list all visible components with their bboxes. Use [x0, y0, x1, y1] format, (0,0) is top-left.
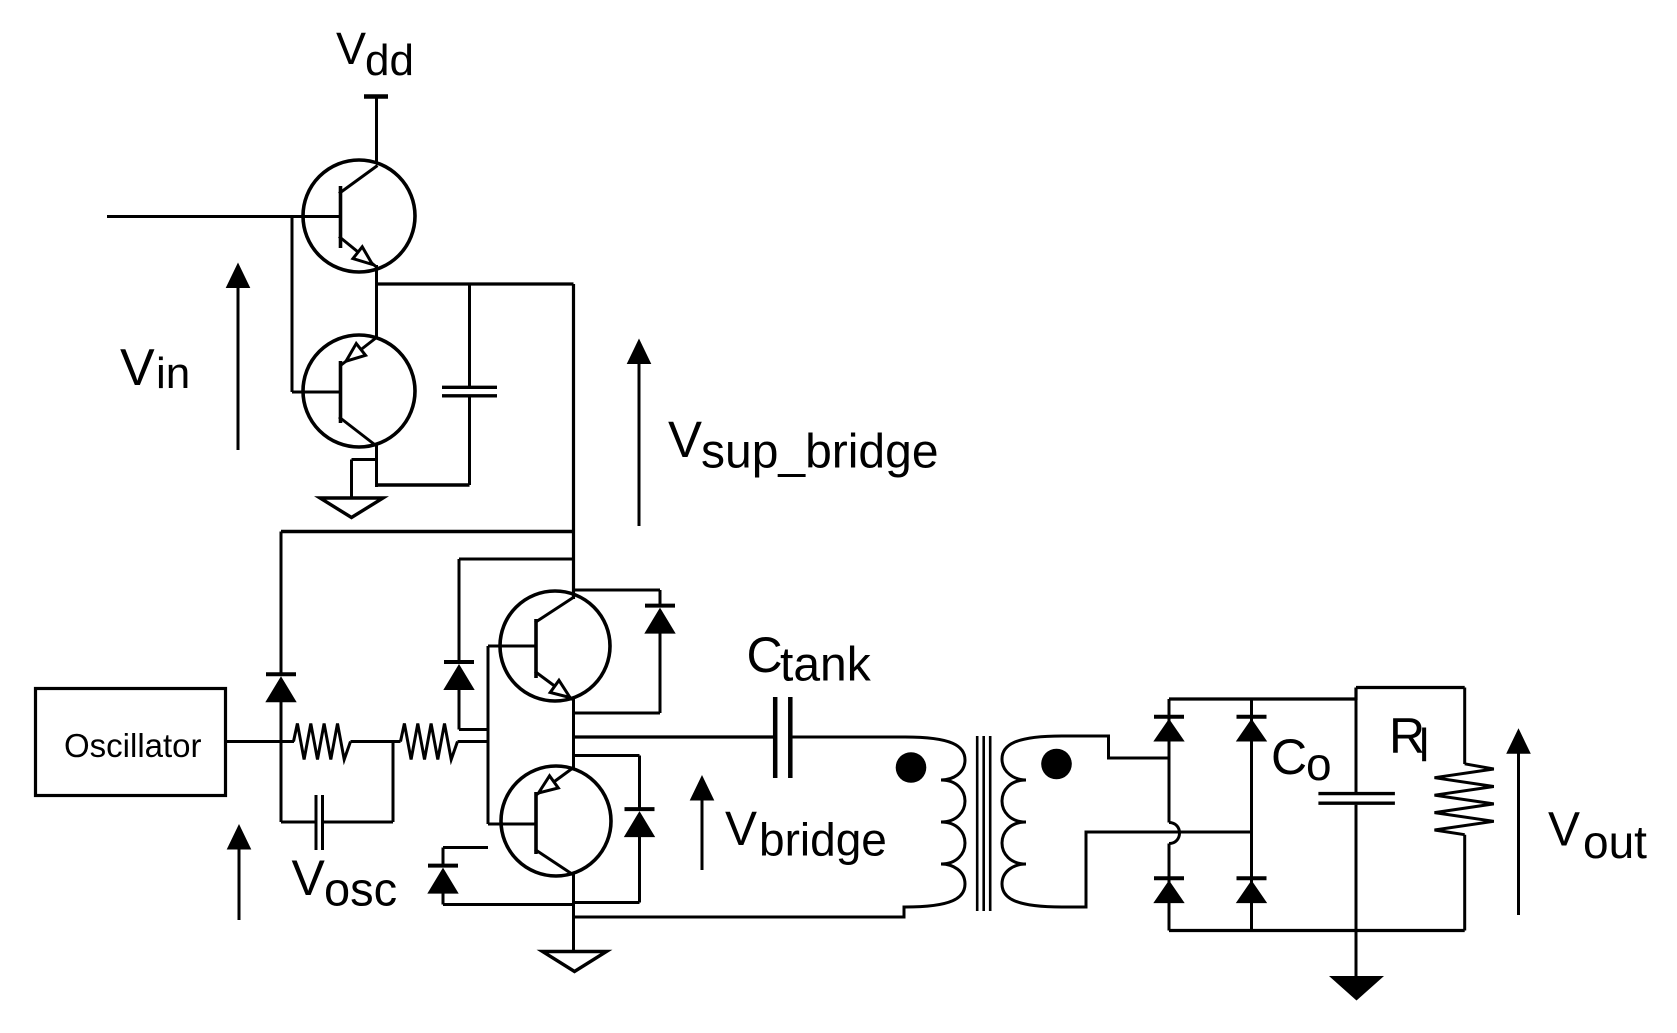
- resistor R2: [401, 724, 458, 760]
- transistor Q2 body: [303, 335, 415, 447]
- diode DB2 (bridge lower-left): [1153, 878, 1184, 903]
- ground (Q2 collector): [320, 498, 383, 518]
- wire Q4 base lead: [488, 823, 536, 826]
- ground (half bridge): [543, 952, 607, 972]
- transistor Q2 emitter lead: [341, 338, 377, 366]
- svg-text:osc: osc: [324, 863, 397, 916]
- capacitor C2 left lead: [281, 742, 315, 823]
- diode D4 bottom lead: [638, 834, 641, 903]
- transistor Q3 body: [500, 591, 610, 701]
- transformer primary winding: [574, 737, 966, 917]
- wire D5 return: [443, 903, 574, 906]
- transistor Q4 body: [501, 766, 611, 876]
- diode DB1 (bridge upper-left): [1153, 717, 1184, 742]
- transistor Q3 collector lead: [535, 597, 574, 623]
- net label Vbridge: [725, 803, 887, 866]
- wire ground stub (output): [1355, 931, 1358, 978]
- arrow Vin: [226, 263, 251, 451]
- resistor Rl: [1435, 764, 1494, 835]
- transistor Q2 base bar: [339, 361, 343, 423]
- svg-text:l: l: [1419, 719, 1429, 771]
- ground (output, solid): [1329, 976, 1384, 1001]
- capacitor Co: [1318, 794, 1395, 804]
- transformer primary dot: [896, 752, 927, 783]
- diode D6 (to Vsup rail): [265, 674, 296, 702]
- wire C1 return: [377, 483, 470, 486]
- transistor Q1 body: [303, 160, 415, 272]
- diode D3 top lead: [659, 590, 662, 605]
- component label Rl: [1389, 708, 1429, 771]
- svg-text:in: in: [156, 349, 190, 398]
- wire Q2 base lead: [292, 391, 341, 394]
- net label Vosc: [292, 850, 398, 916]
- resistor Rl top lead: [1463, 688, 1466, 765]
- svg-text:dd: dd: [365, 36, 414, 85]
- wire Q1/Q2 base tie vertical: [291, 217, 294, 393]
- diode D3 top wire: [574, 589, 661, 592]
- diode D6 bottom lead: [280, 700, 283, 742]
- arrow Vbridge: [690, 775, 715, 870]
- diode DB3 (bridge upper-right): [1236, 717, 1267, 742]
- arrow Vosc: [227, 824, 252, 920]
- svg-text:bridge: bridge: [759, 814, 887, 866]
- net label Vdd: [336, 23, 414, 85]
- capacitor C1 top lead: [468, 284, 471, 386]
- diode D4 (antiparallel Q4): [624, 809, 655, 837]
- wire D7 tie rail: [459, 558, 574, 561]
- transistor Q4 collector lead: [535, 850, 574, 876]
- arrow Vsup_bridge: [627, 339, 652, 527]
- wire bridge mid rail: [574, 735, 775, 738]
- wire R1 to R2: [351, 740, 401, 743]
- transistor Q3 emitter lead: [535, 672, 574, 701]
- wire R2 to base column: [458, 740, 489, 743]
- Vdd supply terminal: [364, 97, 388, 165]
- resistor R1: [294, 724, 351, 760]
- wire Q2 emitter up: [375, 284, 378, 339]
- oscillator label: [64, 727, 202, 764]
- diode D4 bottom wire: [574, 901, 640, 904]
- svg-text:o: o: [1306, 738, 1332, 790]
- diode D7 (base clamp upper): [443, 662, 474, 690]
- diode D7 top lead: [458, 559, 461, 662]
- diode D5 (base clamp lower): [427, 866, 458, 894]
- diode D5 tie wire: [443, 848, 488, 867]
- net label Vin: [120, 339, 190, 398]
- capacitor C2 right lead: [324, 742, 393, 823]
- transistor Q4 emitter lead: [536, 768, 574, 796]
- diode D6 top lead: [280, 532, 283, 675]
- transistor Q3 base bar: [534, 619, 538, 678]
- wire node A horizontal (Q1 emitter to Vsup column): [377, 282, 574, 285]
- svg-text:V: V: [668, 411, 702, 468]
- wire primary return junction: [572, 917, 575, 951]
- svg-text:out: out: [1583, 816, 1647, 868]
- wire bridge left leg lower: [1168, 844, 1171, 931]
- wire Q4 emitter up: [572, 737, 575, 769]
- diode D3 (antiparallel Q3): [644, 606, 675, 634]
- transistor Q4 base bar: [534, 792, 538, 854]
- capacitor Co bottom lead: [1355, 805, 1358, 931]
- capacitor C1 bottom lead: [468, 397, 471, 485]
- wire Q4 collector down: [572, 873, 575, 951]
- net label Vout: [1548, 804, 1647, 869]
- transformer core: [977, 736, 990, 911]
- svg-text:V: V: [292, 850, 326, 906]
- wire oscillator output: [226, 740, 294, 743]
- transformer secondary dot: [1041, 749, 1072, 780]
- diode D7 bottom lead: [458, 687, 461, 730]
- diode D4 top wire: [574, 754, 640, 757]
- wire bridge top rail: [1169, 697, 1355, 700]
- diode D4 top lead: [638, 756, 641, 811]
- svg-text:V: V: [725, 803, 757, 856]
- svg-text:V: V: [336, 23, 366, 74]
- wire base column (Q3 base to Q4 base): [487, 646, 490, 824]
- diode D3 bottom lead: [659, 630, 662, 713]
- svg-text:Oscillator: Oscillator: [64, 727, 202, 764]
- wire bridge right leg: [1250, 699, 1253, 931]
- wire top rail jog: [1356, 688, 1465, 701]
- wire crossover hop: [1169, 823, 1180, 844]
- capacitor Ctank: [775, 697, 790, 778]
- component label Ctank: [747, 627, 872, 692]
- svg-text:C: C: [1271, 729, 1307, 785]
- svg-text:V: V: [1548, 804, 1580, 857]
- capacitor C2 (across R1): [316, 795, 323, 850]
- wire bridge bottom rail: [1169, 929, 1465, 932]
- net label Vsup_bridge: [668, 411, 939, 479]
- wire top rail (Vsup to oscillator diode): [281, 530, 574, 533]
- wire Q3 emitter down: [572, 698, 575, 738]
- wire D7 to base column: [459, 728, 488, 731]
- wire Vsup column: [572, 284, 575, 599]
- wire ground tee: [352, 460, 377, 498]
- transformer secondary winding: [1002, 736, 1252, 907]
- arrow Vout: [1506, 728, 1531, 915]
- wire Q3 base lead: [488, 645, 536, 648]
- diode D5 bottom lead: [442, 889, 445, 905]
- transistor Q1 base bar: [339, 186, 343, 248]
- wire Q2 collector down: [375, 444, 378, 487]
- wire input to Q1 base: [107, 215, 341, 218]
- diode D3 bottom wire: [574, 712, 661, 715]
- capacitor C1: [442, 387, 497, 396]
- wire Q1 emitter down: [375, 265, 378, 286]
- capacitor Co top lead: [1355, 699, 1358, 792]
- diode DB4 (bridge lower-right): [1236, 878, 1267, 903]
- wire bridge left leg upper: [1168, 699, 1171, 823]
- transistor Q2 collector lead: [339, 417, 377, 446]
- resistor Rl bottom lead: [1463, 835, 1466, 931]
- transistor Q1 collector lead: [339, 166, 378, 194]
- svg-text:tank: tank: [780, 639, 872, 692]
- component label Co: [1271, 729, 1332, 790]
- svg-text:C: C: [747, 627, 783, 683]
- svg-text:sup_bridge: sup_bridge: [701, 426, 939, 479]
- svg-text:V: V: [120, 339, 155, 397]
- oscillator box: [36, 689, 226, 796]
- transistor Q1 emitter lead: [339, 237, 377, 268]
